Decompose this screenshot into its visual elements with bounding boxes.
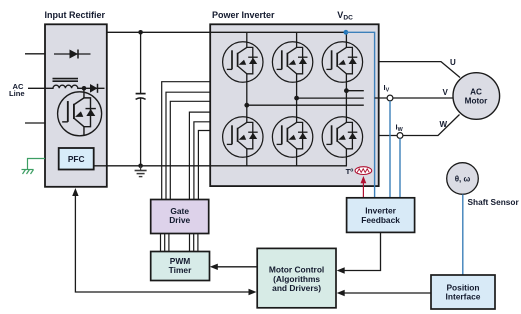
- wire: VDC sense (blue): [346, 32, 375, 198]
- wire: phase W: [379, 115, 460, 136]
- wire: D2 node to Q7 collector: [83, 88, 85, 96]
- arrow up into rectifier: [72, 188, 78, 196]
- block: Position Interface: [431, 275, 495, 309]
- wire: AC line stub bottom: [25, 122, 46, 124]
- node: top rail / C1: [138, 30, 143, 35]
- wire: leg A phase stub: [247, 104, 364, 106]
- svg-text:Interface: Interface: [446, 292, 481, 302]
- svg-text:and Drivers): and Drivers): [272, 283, 321, 293]
- node: bottom rail / C1 / ground: [138, 164, 143, 169]
- transistor Q2 (leg B high): [272, 42, 312, 82]
- arrow into PWM Timer: [210, 264, 218, 270]
- transistor Q4 (leg A low): [223, 117, 263, 157]
- transistor Q7 (PFC IGBT): [58, 92, 102, 136]
- node: leg A midpoint: [244, 103, 249, 108]
- inverter leg A column wire: [246, 32, 248, 166]
- block: Power Inverter: [210, 24, 379, 186]
- diode D2 (boost diode): [84, 84, 105, 93]
- transistor Q5 (leg B low): [272, 117, 312, 157]
- current sensor Iv: [387, 95, 393, 101]
- wire: AC line stub middle: [28, 87, 46, 89]
- wire: phase U: [379, 62, 460, 78]
- wire: DC- bottom rail: [94, 165, 347, 167]
- svg-text:Line: Line: [9, 89, 25, 98]
- inverter leg B column wire: [296, 32, 298, 166]
- inverter leg C column wire: [345, 32, 347, 166]
- gate wire 4: [189, 112, 210, 199]
- wire: AC line stub top: [25, 53, 46, 55]
- wire: DC+ top rail: [107, 31, 346, 33]
- node: L1/D2/Q7 junction: [82, 86, 87, 91]
- wire: leg B phase stub: [297, 97, 364, 99]
- diode D1 (top rectifier diode): [54, 50, 91, 59]
- ground (DC bus): [135, 166, 147, 177]
- svg-text:Power Inverter: Power Inverter: [212, 10, 275, 20]
- gate wire 1: [162, 82, 211, 200]
- wire: leg C phase stub: [346, 90, 363, 92]
- transistor Q6 (leg C low): [322, 117, 362, 157]
- svg-text:V: V: [443, 88, 449, 97]
- wire: AC line sense loop (rectifier / motor control): [75, 195, 250, 293]
- wire: Iv sense (blue): [389, 101, 391, 198]
- thermistor (temperature sensor): [355, 167, 372, 175]
- arrow into motor control (left): [249, 289, 257, 295]
- block: PFC: [59, 148, 94, 170]
- svg-text:Feedback: Feedback: [361, 215, 400, 225]
- wires: gate drive to pwm timer: [161, 234, 198, 252]
- gate wire 5: [194, 122, 210, 200]
- AC Motor: [453, 73, 500, 120]
- arrow into motor control (right top): [337, 267, 345, 273]
- block: Gate Drive: [151, 200, 209, 234]
- svg-text:Shaft Sensor: Shaft Sensor: [468, 197, 520, 207]
- wire: inverter feedback to motor control: [344, 232, 381, 270]
- block: Input Rectifier: [45, 24, 107, 187]
- svg-text:PFC: PFC: [68, 154, 85, 164]
- gate wire 3: [170, 101, 210, 199]
- svg-text:W: W: [440, 120, 448, 129]
- arrow into motor control (right bottom): [337, 290, 345, 296]
- wire: motor control to pwm timer: [217, 266, 257, 268]
- capacitor C1 (DC bus): [136, 32, 146, 166]
- transistor Q1 (leg A high): [223, 42, 263, 82]
- svg-text:U: U: [450, 58, 456, 67]
- inductor L1 with core: [46, 79, 84, 89]
- svg-text:Timer: Timer: [169, 265, 192, 275]
- svg-text:Motor: Motor: [465, 97, 489, 106]
- node: leg C midpoint: [344, 88, 349, 93]
- svg-text:Input Rectifier: Input Rectifier: [45, 10, 106, 20]
- arrow: feedback to thermistor (red): [361, 176, 367, 198]
- wire: shaft sensor to position interface (blue): [462, 194, 464, 275]
- ground (chassis, green): [22, 159, 46, 175]
- transistor Q3 (leg C high): [322, 42, 362, 82]
- block: Motor Control: [257, 248, 336, 307]
- gate wire 2: [166, 92, 210, 199]
- svg-text:Drive: Drive: [169, 215, 190, 225]
- current sensor Iw: [397, 133, 403, 139]
- gate wire 6: [198, 131, 210, 200]
- block: PWM Timer: [151, 252, 210, 281]
- wire: Iw sense (blue): [399, 138, 401, 197]
- svg-text:AC: AC: [470, 87, 482, 96]
- node: leg B midpoint: [294, 96, 299, 101]
- node: VDC tap (blue): [344, 30, 349, 35]
- shaft sensor: [447, 163, 479, 195]
- block: Inverter Feedback: [347, 198, 415, 233]
- svg-text:θ, ω: θ, ω: [455, 175, 471, 184]
- wire: phase V: [375, 97, 453, 99]
- wire: position interface to motor control: [344, 292, 431, 294]
